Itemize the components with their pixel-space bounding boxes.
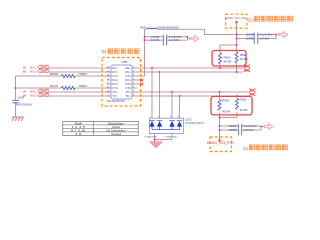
svg-text:SH16150TD: SH16150TD [107,99,126,103]
transformer pin numbers left [107,67,110,97]
wire DVDD rail from FB94 to top-right caps [145,29,277,34]
junction dot ground bus [154,139,156,141]
svg-text:C599: C599 [229,128,238,132]
svg-text:RD+: RD+ [125,66,131,70]
wire MX1_P to RX+ [49,67,111,69]
svg-text:3, 8: 3, 8 [75,132,81,136]
svg-text:49.9R: 49.9R [224,59,232,63]
svg-text:NC4: NC4 [112,78,118,82]
capacitor C449 [163,38,166,45]
off-page arrow A3 [264,124,273,130]
off-page arrow A2 [279,32,288,38]
svg-text:TD+: TD+ [125,90,131,94]
resistor network box (top right) [212,51,246,67]
port MX2_N (crossed out) [23,93,49,97]
resistor R594 [218,100,221,111]
TVS diode array D23 body [150,118,184,133]
wire TD- [132,95,249,97]
port MX1_N (crossed out) [23,69,49,73]
svg-text:CT1: CT1 [125,74,131,78]
svg-text:R595: R595 [240,98,248,102]
note text B1 cost-down transformer [102,49,139,54]
net stub inside bottom DVDD box [219,137,221,141]
svg-text:TX-: TX- [112,94,118,98]
junction dots RD wires [151,67,238,73]
svg-text:R592: R592 [240,53,248,57]
change-area dashed box around transformer [102,58,141,107]
wire MX2_P to TX+ [49,91,111,93]
svg-text:1nF/2000V: 1nF/2000V [15,103,32,107]
net stub inside top DVDD box [236,21,238,28]
svg-text:2 4AGND: 2 4AGND [144,136,158,139]
svg-text:7 9AGND: 7 9AGND [164,136,178,139]
resistor R619 (75R to CT3) [16,84,112,89]
svg-text:R594: R594 [222,98,230,102]
wire DVDD vertical to resistor pair [220,28,237,53]
junction dots left cap group [144,36,189,41]
wire R594/R595 tops to TD wires [220,92,238,100]
svg-text:B1: B1 [248,17,253,22]
note text B1 pull-up network change (top) [248,16,292,22]
svg-text:NC1: NC1 [125,78,131,82]
transformer pin names right column [125,66,131,98]
capacitor C595 [254,37,258,44]
junction dots TD wires [171,91,238,97]
wire MX1_N to RX- [49,71,111,73]
diode 4 of D23 [177,121,182,130]
no-connect X on pin NC1 [140,79,143,82]
svg-text:R608: R608 [50,72,59,76]
port MX2_P (crossed out) [23,89,49,93]
svg-text:49.9R: 49.9R [240,108,248,112]
svg-text:49.9R: 49.9R [222,109,230,113]
wire D23 ground stubs [155,134,173,142]
svg-text:75R/F: 75R/F [78,72,88,76]
svg-text:[6]: [6] [23,69,27,73]
svg-text:CT4: CT4 [112,74,118,78]
transformer U55 body [111,65,132,99]
svg-text:C643: C643 [18,96,25,100]
svg-text:RX+: RX+ [112,66,118,70]
diode 3 of D23 [169,121,174,130]
svg-text:C595: C595 [246,37,255,41]
transformer left pin stubs [107,68,112,96]
ferrite bead FB94 [147,28,158,29]
wire C598 branch [220,126,265,130]
svg-text:CT2: CT2 [125,86,131,90]
wire drops to TVS diode array [152,68,180,118]
svg-text:C449: C449 [151,38,160,42]
capacitor C448 [163,35,166,39]
svg-text:75R/F: 75R/F [78,84,88,88]
port MX1_P (crossed out) [23,65,49,69]
svg-text:1uF/16V: 1uF/16V [169,38,180,42]
net label RD- (crossed out) [244,69,250,73]
junction dot termination bus [15,87,17,89]
junction dots DVDD vertical [236,34,277,46]
analog ground symbol [150,142,163,148]
svg-text:CT3: CT3 [112,86,118,90]
resistor network box (mid right) [211,96,252,115]
svg-text:RX-: RX- [112,70,118,74]
svg-text:B1: B1 [102,49,107,54]
net label TD- (crossed out) [249,93,255,97]
svg-text:RD-: RD- [125,70,131,74]
transformer pin numbers right [133,67,135,97]
chassis ground [12,117,24,121]
power net box DVDD_3V3_PHY (bottom) [210,137,232,152]
wire RD+ [132,67,243,69]
resistor R592 [235,52,238,63]
capacitor C643 [12,100,18,103]
svg-text:DVDD_3V3_PHY: DVDD_3V3_PHY [207,141,235,145]
svg-text:DTV5F4UY0LP-7: DTV5F4UY0LP-7 [186,121,205,125]
svg-text:TX+: TX+ [112,90,118,94]
D23 internal anode bus [152,129,180,131]
wire R593/R592 bottoms to RD wires [220,63,237,72]
wire R594/R595 bottoms joined [220,112,238,141]
off-page arrow A1 [190,36,199,42]
svg-text:NC3: NC3 [112,82,118,86]
note text B1 pull-up network change (bottom) [243,145,287,151]
svg-text:Ground: Ground [111,132,121,136]
D23 pin number smudges [150,116,180,118]
diode 1 of D23 [149,121,154,130]
wire lower branch to C595 [237,35,277,39]
wire MX2_N to TX- [49,95,111,97]
resistor R608 (75R to CT4) [16,72,112,77]
D23 ground pin labels [144,136,178,139]
svg-text:TD-: TD- [125,94,131,98]
svg-text:MX2_N: MX2_N [30,93,39,97]
net label RD+ (crossed out) [244,65,250,69]
resistor R595 [236,99,239,110]
svg-text:NC2: NC2 [125,82,131,86]
svg-text:B1: B1 [243,146,248,151]
transformer pin names left column [112,66,118,98]
svg-text:1uF/16V: 1uF/16V [244,128,254,132]
net label TD+ (crossed out) [249,89,255,93]
svg-text:1uF/16V: 1uF/16V [260,37,270,41]
capacitor C598 [238,124,241,128]
svg-text:R619: R619 [50,84,59,88]
no-connect X on pin NC2 [140,83,143,86]
svg-text:R593: R593 [224,55,232,59]
wire termination bus down to C643 [15,76,17,117]
svg-text:MX1_N: MX1_N [30,69,39,73]
power net box DVDD_3V3_PHY (top) [226,14,248,28]
pin description table [63,121,138,136]
diode 2 of D23 [157,121,162,130]
svg-text:49.9R: 49.9R [240,57,248,61]
wire TD+ [132,91,249,93]
transformer right pin stubs [132,80,140,88]
svg-text:U55: U55 [122,60,128,64]
svg-text:DVDD_3V3_PHY: DVDD_3V3_PHY [226,16,247,20]
wire vertical CT1 bus from rail down to transformer CT1 [132,29,145,76]
capacitor C599 [238,128,241,135]
resistor R593 [219,53,222,64]
wire branches to C448/C449 [145,37,191,40]
wire RD- [132,71,243,73]
capacitor C596 [254,33,258,37]
junction dots lower DVDD bus [219,117,262,131]
